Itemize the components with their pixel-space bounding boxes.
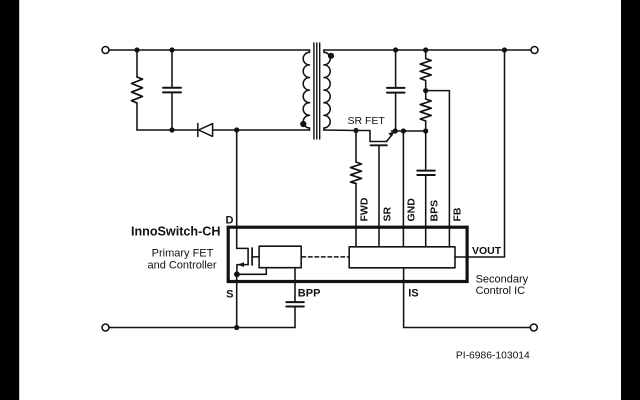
junction dot clamp bottom C <box>169 127 174 132</box>
wire drain line D <box>236 130 238 248</box>
junction dot FB tap <box>423 88 428 93</box>
clamp capacitor <box>163 88 181 93</box>
wire SR FET drain rail <box>392 130 426 132</box>
wire clamp capacitor top lead <box>171 50 173 87</box>
wire BPS lead upper <box>425 131 427 170</box>
junction dot SR drain <box>393 128 398 133</box>
wire BPP capacitor bottom lead <box>294 307 296 327</box>
right black bar <box>621 0 640 400</box>
feedback divider lower resistor <box>420 99 431 121</box>
wire clamp capacitor bottom lead <box>171 93 173 130</box>
wire divider mid <box>425 81 427 100</box>
svg-text:FB: FB <box>452 207 464 221</box>
svg-text:D: D <box>226 214 234 226</box>
junction dot top rail C <box>169 47 174 52</box>
SR FET source step <box>356 131 387 142</box>
junction dot output cap top <box>393 47 398 52</box>
junction dot top rail R <box>134 47 139 52</box>
wire diode anode to transformer <box>213 129 310 131</box>
input terminal top-left <box>102 47 109 54</box>
wire top rail primary <box>109 49 310 51</box>
left black bar <box>0 0 19 400</box>
wire divider top lead <box>425 50 427 59</box>
wire secondary return rail <box>324 129 356 132</box>
output capacitor <box>387 88 405 93</box>
primary FET drain stub <box>237 248 248 264</box>
svg-text:PI-6986-103014: PI-6986-103014 <box>456 351 530 362</box>
wire clamp bottom rail <box>137 129 198 131</box>
wire FB tap <box>426 91 450 247</box>
svg-text:SR: SR <box>382 206 394 221</box>
feedback divider upper resistor <box>420 59 431 81</box>
junction dot divider top <box>423 47 428 52</box>
transformer primary polarity dot <box>300 121 306 127</box>
svg-text:Secondary: Secondary <box>476 274 529 286</box>
IC box InnoSwitch-CH <box>228 227 467 281</box>
wire output capacitor bottom lead <box>395 93 397 131</box>
wire top rail secondary <box>324 49 531 51</box>
junction dot divider bottom <box>423 128 428 133</box>
svg-text:Control IC: Control IC <box>476 285 526 297</box>
wire BPP pin line <box>294 268 296 302</box>
primary FET source with arrow <box>237 265 248 275</box>
svg-text:and Controller: and Controller <box>147 259 216 271</box>
transformer secondary polarity dot <box>328 53 334 59</box>
output terminal top-right <box>531 47 538 54</box>
junction dot SR source <box>353 128 358 133</box>
svg-text:IS: IS <box>408 288 418 300</box>
wire divider bottom lead <box>425 121 427 131</box>
wire SR gate lead / SR pin line <box>378 145 380 247</box>
svg-text:SR FET: SR FET <box>348 115 386 127</box>
svg-text:BPS: BPS <box>428 200 440 222</box>
clamp resistor <box>132 77 143 103</box>
wire FWD lead upper <box>355 131 357 163</box>
wire clamp resistor bottom lead <box>136 103 138 130</box>
junction dot drain node <box>234 127 239 132</box>
BPS capacitor <box>417 171 435 175</box>
wire FWD pin line <box>355 184 357 247</box>
transformer secondary winding <box>324 50 330 130</box>
return terminal bottom-left <box>102 324 109 331</box>
svg-text:GND: GND <box>406 198 418 222</box>
primary FET gate stub <box>252 256 259 258</box>
wire output capacitor top lead <box>395 50 397 87</box>
source sense line <box>237 268 266 275</box>
svg-text:S: S <box>226 288 233 300</box>
transformer primary winding <box>303 50 309 130</box>
FWD resistor <box>351 162 362 184</box>
secondary control box <box>349 247 455 268</box>
wire BPS pin line <box>425 176 427 247</box>
wire GND pin line <box>402 131 404 247</box>
SR FET drain arrow <box>387 135 392 141</box>
junction dot GND rail <box>401 128 406 133</box>
svg-text:InnoSwitch-CH: InnoSwitch-CH <box>131 225 221 239</box>
clamp diode <box>198 124 213 137</box>
BPP capacitor <box>286 302 304 306</box>
svg-text:BPP: BPP <box>298 288 321 300</box>
svg-text:VOUT: VOUT <box>472 245 502 257</box>
SR FET gate bar <box>371 144 388 146</box>
junction dot primary FET source <box>234 271 240 277</box>
primary FET gate bar <box>251 248 253 265</box>
wire bottom rail primary <box>109 327 295 329</box>
svg-text:Primary FET: Primary FET <box>152 248 214 260</box>
wire S pin line <box>236 274 238 327</box>
controller box <box>259 246 301 268</box>
junction dot bottom rail S <box>234 325 239 330</box>
output return terminal bottom-right <box>530 324 537 331</box>
wire clamp resistor top lead <box>136 50 138 77</box>
junction dot VOUT sense top <box>502 47 507 52</box>
svg-text:FWD: FWD <box>359 197 371 221</box>
dashed link controller to secondary <box>302 256 349 258</box>
transformer core <box>314 43 320 139</box>
wire VOUT sense line <box>455 50 505 257</box>
wire IS pin line <box>404 268 531 328</box>
